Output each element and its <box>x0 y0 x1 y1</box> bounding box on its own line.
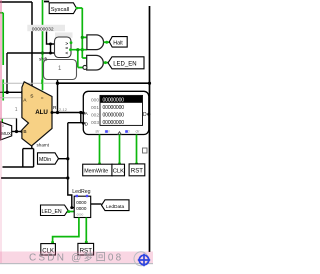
svg-text:MUX: MUX <box>1 131 11 136</box>
gate AND2 input bubble <box>83 65 87 69</box>
pin RST (ram) <box>129 164 145 176</box>
svg-text:ALU: ALU <box>35 109 48 116</box>
svg-text:1: 1 <box>15 107 18 113</box>
svg-text:CLK: CLK <box>113 169 124 175</box>
svg-text:0000: 0000 <box>76 200 87 205</box>
svg-text:001: 001 <box>91 105 99 111</box>
svg-text:00000000: 00000000 <box>103 98 125 104</box>
svg-text:CSDN @梦回08: CSDN @梦回08 <box>29 252 123 264</box>
MUX M1 <box>1 122 12 140</box>
svg-text:00000000: 00000000 <box>103 113 125 119</box>
svg-text:<: < <box>65 50 68 56</box>
svg-text:R: R <box>53 105 57 111</box>
wire A-net: label arrow down to comparator and y53 run <box>0 32 55 93</box>
label 00000032 <box>27 25 65 31</box>
gate AND1 (Halt) <box>87 35 104 50</box>
wire MUX out to ALU B <box>12 131 22 133</box>
wire D-loop vertical <box>68 123 72 208</box>
svg-text:MDin: MDin <box>39 157 51 163</box>
svg-text:RST: RST <box>131 168 143 174</box>
svg-text:000: 000 <box>91 97 99 103</box>
gray floating wires left <box>0 98 22 119</box>
tunnel LED_EN bottom <box>41 205 69 216</box>
svg-text:00000000: 00000000 <box>103 105 125 111</box>
wire AND1 out <box>104 41 110 43</box>
wire RAM str/clk/clr to pins <box>100 135 137 165</box>
memory RAM1 <box>83 91 149 134</box>
tunnel Halt <box>109 37 127 48</box>
svg-text:00000000: 00000000 <box>103 120 125 126</box>
watermark band <box>0 252 153 264</box>
svg-text:0: 0 <box>2 124 4 128</box>
wire top horizontal to S-select vertical <box>0 2 32 86</box>
svg-text:shift: shift <box>39 57 48 62</box>
wire reg out to LedData <box>91 203 102 205</box>
wire reg clock/reset greens <box>53 218 87 244</box>
label empty gray <box>55 32 73 37</box>
svg-text:str: str <box>95 130 100 134</box>
wire green long vertical to ALU flag input <box>42 0 44 90</box>
node dot on y53 <box>41 51 44 54</box>
node junction dots A-net <box>6 43 53 95</box>
shift constant box <box>44 60 77 80</box>
wire green left edge vertical <box>0 13 3 123</box>
wire shamt <box>3 146 34 167</box>
tunnel LedData <box>102 200 130 211</box>
wire AND2 out <box>104 62 108 64</box>
svg-text:LedReg: LedReg <box>72 189 90 195</box>
wire bus y83 <box>3 82 56 84</box>
svg-text:LedData: LedData <box>106 204 124 210</box>
gate AND2 (LED_EN) <box>87 55 104 70</box>
node pin connection nubs CLK/RST <box>51 241 88 244</box>
watermark icon <box>134 252 148 266</box>
wire R bus <box>52 112 83 114</box>
svg-text:MemWrite: MemWrite <box>84 168 108 174</box>
pin CLK (ram) <box>112 164 125 176</box>
wire LED_EN green to reg <box>69 211 75 213</box>
svg-text:LED_EN: LED_EN <box>42 209 62 215</box>
wire comparator = output <box>70 50 87 68</box>
pin RST bottom <box>78 243 94 255</box>
svg-text:=: = <box>41 96 44 101</box>
pin CLK bottom <box>41 244 56 255</box>
svg-text:S: S <box>30 94 33 100</box>
svg-text:D: D <box>143 112 147 118</box>
tunnel MDin <box>38 153 59 164</box>
svg-text:LED_EN: LED_EN <box>113 62 136 68</box>
ALU U1 <box>22 82 52 146</box>
wire right edge long vertical <box>149 6 151 252</box>
svg-text:0000: 0000 <box>76 206 87 211</box>
wire R to D row <box>80 113 82 123</box>
wire MDin to D-loop <box>59 158 68 160</box>
svg-text:Halt: Halt <box>113 40 123 46</box>
pin MemWrite <box>83 164 113 176</box>
tunnel LED_EN right <box>108 57 144 69</box>
svg-text:2-12: 2-12 <box>59 107 68 112</box>
wire Syscall green <box>77 8 87 58</box>
wire long left y178 <box>1 177 68 179</box>
pin Syscall <box>49 3 76 14</box>
svg-text:00000032: 00000032 <box>32 26 54 32</box>
small box right edge <box>143 148 148 153</box>
svg-text:Syscall: Syscall <box>51 7 69 13</box>
svg-text:0000: 0000 <box>77 212 84 216</box>
wire black stub "1" net <box>16 118 18 131</box>
svg-text:002: 002 <box>91 112 99 118</box>
node pin connection nubs <box>98 163 138 166</box>
svg-text:shamt: shamt <box>37 143 50 148</box>
svg-text:B: B <box>23 129 26 135</box>
wire 1box output down <box>57 79 59 112</box>
wire stub top edge near Syscall <box>44 1 49 3</box>
comparator U2 (> = <) <box>55 37 72 58</box>
svg-text:003: 003 <box>91 120 99 126</box>
